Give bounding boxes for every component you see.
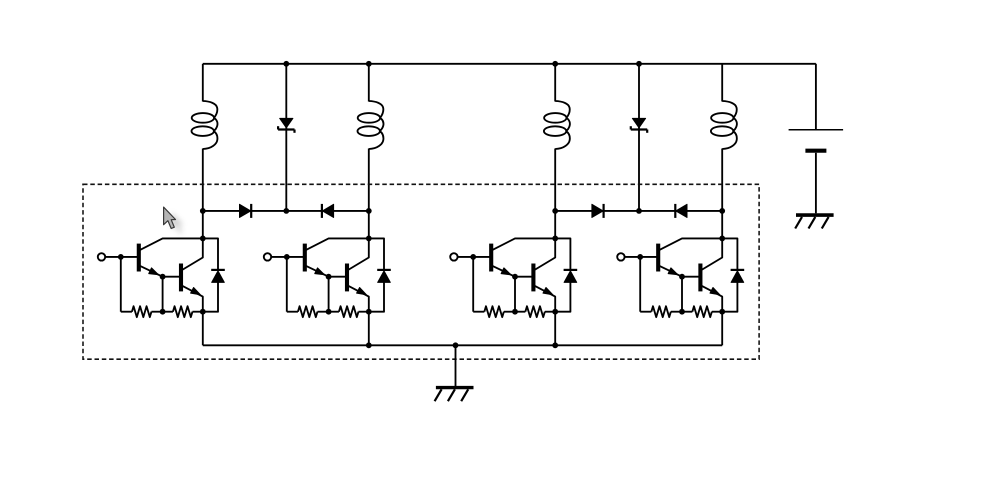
junction emitter rail tap cell4 [719,309,725,315]
inductor L2 [358,64,384,211]
diode D3 (flyback, cell3) [555,238,577,311]
junction rail ground tap [453,342,459,348]
junction resistor mid cell3 [512,309,518,315]
input terminal IN2 [264,253,271,260]
junction bus dot 4 [552,208,558,214]
inductor L4 [711,64,737,211]
resistor R3a [473,306,515,317]
mouse cursor [164,207,184,233]
junction resistor mid cell2 [326,309,332,315]
junction input cell4 [637,254,643,260]
diode D1 (flyback, cell1) [203,238,225,311]
ground (emitter rail) [435,345,474,401]
resistor R4a [640,306,682,317]
junction emitter rail tap cell1 [200,309,206,315]
diode D7 (bus, cell3 side) [592,204,604,218]
wire bus to collector node cell4 [721,211,723,239]
wire IN3 to base [458,256,492,258]
inductor L1 [192,64,218,211]
diode D4 (flyback, cell4) [722,238,744,311]
diode D5 (bus, cell1 side) [240,204,252,218]
resistor R1b [163,306,203,317]
node collector cell4 [719,236,725,242]
wire input drop cell2 [286,257,288,312]
ground (battery) [795,215,833,228]
wire bus to collector node cell2 [368,211,370,239]
resistor R2b [329,306,369,317]
node emitter/base cell2 [326,274,332,280]
junction rail cell2 [366,342,372,348]
diode D2 (flyback, cell2) [369,238,391,311]
inductor L3 [544,64,570,211]
IC package outline (dashed box) [83,184,759,359]
wire emitter to rail cell4 [721,312,723,346]
wire common-cathode bus (left pair) [203,210,369,212]
node emitter/base cell1 [160,274,166,280]
wire emitter to rail cell3 [554,312,556,346]
resistor R3b [515,306,555,317]
battery B1 [789,64,844,214]
junction input cell3 [470,254,476,260]
transistor Q1a [139,238,203,276]
wire input drop cell4 [639,257,641,312]
zener diode ZD1 [278,64,294,211]
junction emitter rail tap cell2 [366,309,372,315]
junction input cell1 [118,254,124,260]
transistor Q3b [515,238,555,311]
wire emitter to rail cell1 [202,312,204,346]
node collector cell2 [366,236,372,242]
resistor R2a [287,306,329,317]
input terminal IN4 [617,253,624,260]
junction top rail / L2 [366,61,372,67]
node collector cell3 [552,236,558,242]
transistor Q3a [491,238,555,276]
wire top supply rail [203,63,816,65]
node collector cell1 [200,236,206,242]
junction bus dot 3 [366,208,372,214]
input terminal IN1 [98,253,105,260]
wire common-cathode bus (right pair) [555,210,722,212]
wire input drop cell3 [472,257,474,312]
diode D6 (bus, cell2 side) [322,204,334,218]
wire emitter to rail cell2 [368,312,370,346]
node emitter/base cell3 [512,274,518,280]
junction bus dot 6 [719,208,725,214]
wire base drop cell1 [162,277,164,312]
transistor Q2a [305,238,369,276]
junction top rail / L3 [552,61,558,67]
resistor R4b [682,306,722,317]
junction bus dot 5 [636,208,642,214]
junction bus dot 1 [200,208,206,214]
diode D8 (bus, cell4 side) [675,204,687,218]
node emitter/base cell4 [679,274,685,280]
transistor Q1b [163,238,203,311]
wire bus to collector node cell3 [554,211,556,239]
resistor R1a [121,306,163,317]
wire bottom emitter rail [203,344,722,346]
junction resistor mid cell4 [679,309,685,315]
wire base drop cell2 [328,277,330,312]
junction input cell2 [284,254,290,260]
junction emitter rail tap cell3 [552,309,558,315]
transistor Q4a [658,238,722,276]
junction bus dot 2 [283,208,289,214]
wire IN1 to base [105,256,139,258]
junction rail cell3 [552,342,558,348]
wire input drop cell1 [120,257,122,312]
junction resistor mid cell1 [160,309,166,315]
junction top rail / ZD1 [283,61,289,67]
wire base drop cell3 [514,277,516,312]
zener diode ZD2 [631,64,647,211]
wire IN2 to base [271,256,305,258]
transistor Q4b [682,238,722,311]
junction top rail / ZD2 [636,61,642,67]
wire base drop cell4 [681,277,683,312]
wire IN4 to base [625,256,659,258]
transistor Q2b [329,238,369,311]
wire bus to collector node cell1 [202,211,204,239]
input terminal IN3 [450,253,457,260]
